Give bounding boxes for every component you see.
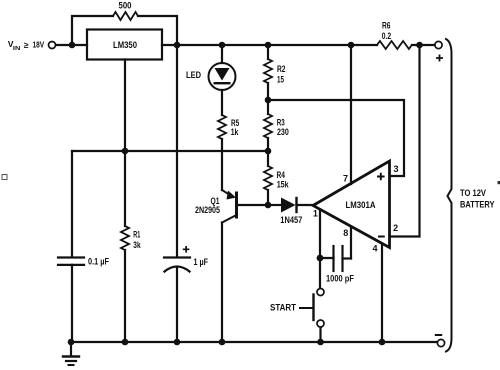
svg-text:1N457: 1N457 — [280, 215, 302, 225]
svg-text:1000 pF: 1000 pF — [326, 274, 354, 285]
svg-text:1k: 1k — [231, 127, 239, 137]
svg-text:TO 12V: TO 12V — [460, 188, 486, 198]
svg-text:≥: ≥ — [24, 40, 29, 50]
svg-text:7: 7 — [343, 174, 348, 184]
svg-text:15: 15 — [277, 74, 284, 84]
svg-text:0.1 µF: 0.1 µF — [88, 256, 110, 266]
svg-text:LED: LED — [186, 70, 201, 80]
svg-text:R2: R2 — [277, 64, 286, 74]
svg-text:START: START — [270, 303, 297, 313]
svg-text:15k: 15k — [277, 180, 289, 190]
svg-text:R4: R4 — [277, 170, 285, 180]
svg-text:LM350: LM350 — [113, 40, 137, 50]
svg-text:IN: IN — [13, 46, 20, 52]
svg-text:3: 3 — [393, 164, 398, 174]
svg-text:4: 4 — [372, 243, 377, 253]
svg-text:1: 1 — [313, 209, 318, 219]
svg-text:BATTERY: BATTERY — [460, 200, 495, 210]
svg-text:230: 230 — [277, 127, 289, 137]
svg-text:R6: R6 — [382, 21, 391, 31]
svg-text:R1: R1 — [133, 230, 140, 240]
svg-text:2N2905: 2N2905 — [195, 205, 220, 215]
svg-text:500: 500 — [119, 1, 132, 11]
svg-text:3k: 3k — [133, 240, 140, 250]
svg-text:2: 2 — [393, 223, 398, 233]
svg-text:1 µF: 1 µF — [194, 257, 209, 267]
svg-text:8: 8 — [343, 228, 348, 238]
svg-text:0.2: 0.2 — [382, 31, 391, 41]
svg-text:18V: 18V — [33, 39, 45, 49]
svg-text:LM301A: LM301A — [346, 200, 376, 210]
